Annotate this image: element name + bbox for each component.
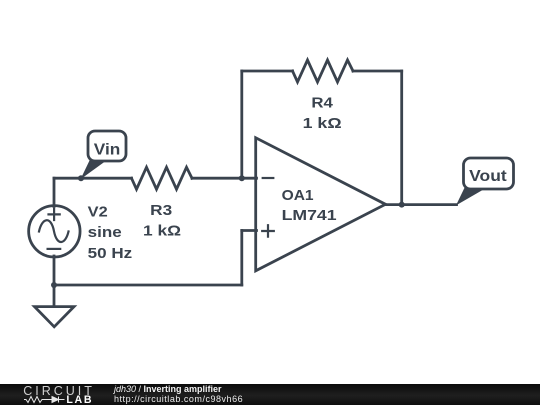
logo diode cathode bar and lead <box>59 397 65 403</box>
node label Vin pointer <box>81 160 106 180</box>
resistor R4 <box>293 60 354 82</box>
node dot: output / feedback junction <box>399 202 405 208</box>
wire: output net <box>386 203 457 206</box>
svg-text:LM741: LM741 <box>282 207 337 224</box>
footer url line <box>114 395 243 404</box>
ground <box>35 307 75 327</box>
wire: feedback right vertical down to output node <box>400 71 403 205</box>
wire: ground net horizontal run to op-amp non-inverting branch <box>54 284 242 287</box>
wire: feedback top left segment <box>242 70 293 73</box>
svg-text:V2: V2 <box>88 203 108 220</box>
CircuitLab logo wordmark LAB <box>66 395 93 405</box>
node label Vout pointer <box>456 187 487 206</box>
resistor R3 <box>132 167 193 189</box>
op-amp OA1 triangle <box>256 138 386 271</box>
op-amp non-inverting input plus mark <box>262 225 274 237</box>
svg-text:Vin: Vin <box>94 142 121 159</box>
wire: non-inverting branch vertical <box>240 231 243 286</box>
svg-text:R3: R3 <box>150 202 172 219</box>
wire: feedback top right segment <box>353 70 402 73</box>
CircuitLab logo wordmark CIRCUIT <box>23 385 95 398</box>
wire: R3 right lead to op-amp inverting input <box>192 177 257 180</box>
voltage source V2 (sine) <box>29 206 80 257</box>
V2 minus polarity mark <box>48 248 61 250</box>
svg-text:sine: sine <box>88 224 122 241</box>
footer bar <box>0 384 540 405</box>
svg-text:1 kΩ: 1 kΩ <box>303 115 342 132</box>
node label Vout box <box>464 158 514 189</box>
wire: V2 bottom lead to ground node <box>53 256 56 307</box>
svg-text:Vout: Vout <box>469 168 507 185</box>
svg-text:OA1: OA1 <box>282 187 314 204</box>
node label Vin box <box>88 131 126 161</box>
node dot: ground junction <box>51 282 57 288</box>
logo resistor zigzag <box>24 397 52 403</box>
node dot: inverting input / feedback junction <box>239 175 245 181</box>
wire: feedback left vertical from inverting node <box>240 71 243 178</box>
node dot: Vin tap junction <box>78 175 84 181</box>
svg-text:50 Hz: 50 Hz <box>88 245 133 262</box>
wire: main input net from V2 top corner to R3 <box>54 177 132 180</box>
footer title line <box>114 385 222 394</box>
wire: V2 top lead <box>53 178 56 206</box>
wire: op-amp non-inverting input lead <box>242 229 257 232</box>
V2 plus polarity mark <box>49 209 60 220</box>
CircuitLab logo mini-schematic (resistor + diode) <box>0 384 110 405</box>
op-amp inverting input minus mark <box>263 177 274 179</box>
logo diode triangle <box>52 397 59 403</box>
svg-text:R4: R4 <box>311 94 333 111</box>
V2 sine waveform symbol <box>39 220 69 242</box>
svg-text:1 kΩ: 1 kΩ <box>143 222 181 239</box>
